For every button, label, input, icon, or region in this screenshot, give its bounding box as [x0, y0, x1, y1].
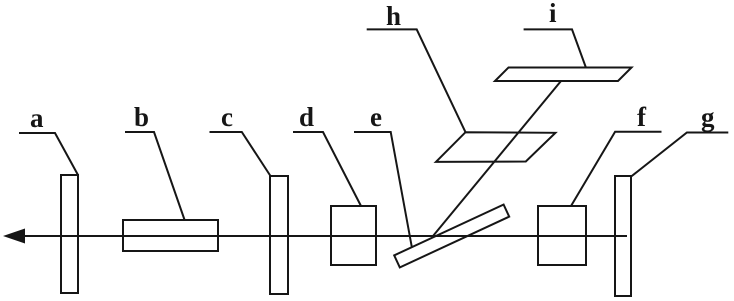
- plate a (thin vertical element): [61, 175, 78, 293]
- svg-text:f: f: [637, 102, 647, 132]
- reflected beam (diagonal line from beamsplitter up to i): [433, 81, 561, 236]
- svg-text:i: i: [549, 0, 557, 28]
- leader line c: [210, 132, 271, 176]
- svg-text:c: c: [221, 102, 233, 132]
- parallelogram h (tilted flat element): [436, 132, 556, 162]
- leader line b: [125, 132, 185, 220]
- svg-text:b: b: [134, 102, 149, 132]
- leader line a: [19, 133, 78, 175]
- svg-text:g: g: [701, 102, 715, 132]
- plate c (thin vertical element): [270, 176, 288, 294]
- svg-text:e: e: [370, 102, 382, 132]
- svg-text:h: h: [386, 1, 401, 31]
- leader line g: [631, 133, 728, 177]
- parallelogram i (tilted flat element, top): [495, 68, 632, 82]
- box d (square element): [331, 206, 376, 265]
- svg-text:d: d: [299, 102, 314, 132]
- arrowhead (beam output, pointing left): [3, 229, 25, 244]
- leader line f: [571, 132, 662, 206]
- leader line d: [293, 132, 361, 206]
- leader line e: [354, 132, 412, 247]
- svg-text:a: a: [30, 103, 44, 133]
- leader line i: [524, 29, 586, 67]
- plate g (thin vertical element): [615, 176, 631, 296]
- box b (horizontal element): [123, 220, 218, 251]
- leader line h: [367, 29, 466, 132]
- box f (square element): [538, 206, 586, 265]
- beamsplitter e (tilted rectangle): [394, 205, 509, 268]
- beam line (main horizontal optical axis): [21, 235, 627, 237]
